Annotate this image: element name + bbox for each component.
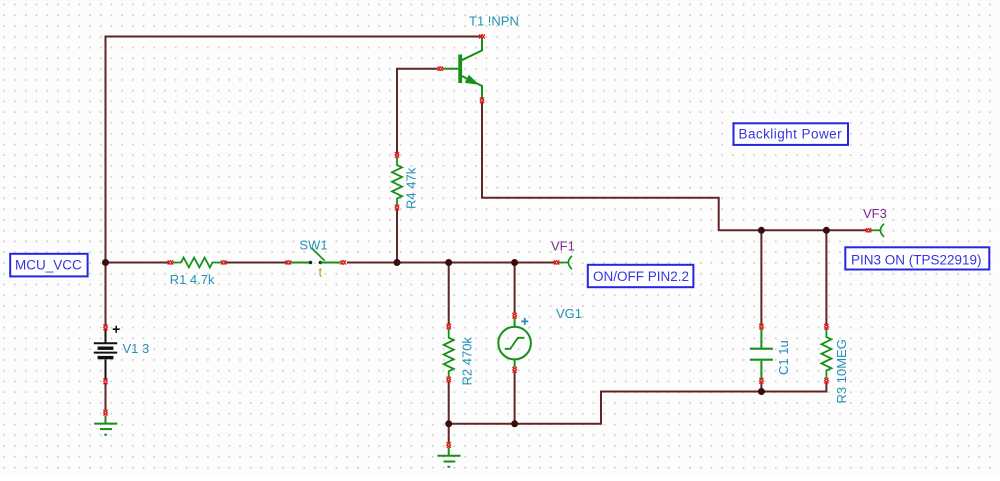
junction C1 bottom [758,388,765,395]
net label MCU_VCC [10,254,87,277]
wire T1 base to R4 top [397,69,438,153]
resistor R4 [392,152,402,210]
wire C1 top branch [760,230,762,324]
svg-text:VF3: VF3 [863,206,887,221]
svg-text:V1 3: V1 3 [123,341,150,356]
wire R3 top branch [825,230,827,324]
resistor R2 [444,324,454,382]
junction R2 bottom rail [445,420,452,427]
label R3 10MEG [834,339,849,403]
junction at MCU_VCC rail [102,259,109,266]
wire VG1 bottom to bottom rail [514,372,516,424]
svg-text:R2 470k: R2 470k [460,337,475,386]
label C1 1u [776,340,791,375]
label SW1 [299,238,327,253]
wire top-left L from node MCU_VCC up and across to T1 collector [106,37,483,262]
ground below V1 [94,410,117,435]
svg-text:R3 10MEG: R3 10MEG [834,339,849,403]
wire T1 emitter down and across to VF3 [482,101,866,230]
wire R2 bottom to bottom rail [448,382,450,424]
label VF1 [551,239,575,254]
wire main horizontal rail left segment to R1 [106,262,169,264]
junction VG1 bottom rail [511,420,518,427]
net label PIN3 ON (TPS22919) [845,247,989,269]
svg-text:R4 47k: R4 47k [404,167,419,209]
net label ON/OFF PIN2.2 [588,265,694,287]
svg-text:Backlight Power: Backlight Power [739,127,843,142]
wire bottom node to ground GND2 [448,424,450,443]
label R1 4.7k [170,272,215,287]
resistor R1 [168,258,227,268]
wire SW1 to VF1 with junctions [347,262,555,264]
label VF3 [863,206,887,221]
label R4 47k [404,167,419,209]
wire bottom rail with step up to C1/R3 net [449,383,827,424]
switch SW1 [286,248,346,264]
svg-text:C1 1u: C1 1u [776,340,791,375]
wire V1 minus to ground [105,384,107,411]
wire R4 bottom to rail [396,210,398,263]
junction R4 bottom on rail [394,259,401,266]
ground below bottom rail GND2 [437,442,460,467]
svg-text:VF1: VF1 [551,239,575,254]
svg-text:MCU_VCC: MCU_VCC [15,258,82,273]
battery V1 [94,325,120,384]
resistor R3 [821,324,831,383]
svg-text:SW1: SW1 [299,238,327,253]
junction R2 top on rail [445,259,452,266]
wire rail down to R2 top [448,263,450,325]
wire C1 bottom branch [760,383,762,392]
wire rail down to VG1 top [514,263,516,314]
svg-text:T1 !NPN: T1 !NPN [469,14,519,29]
svg-text:ON/OFF PIN2.2: ON/OFF PIN2.2 [593,269,689,284]
label VG1 [556,306,582,321]
label t [319,265,323,280]
svg-text:VG1: VG1 [556,306,582,321]
wire R1 to SW1 [226,262,287,264]
junction R3 top [823,227,830,234]
net label Backlight Power [734,123,849,145]
voltage generator VG1 [498,313,531,372]
voltage probe VF3 [866,224,884,237]
svg-text:R1 4.7k: R1 4.7k [170,272,215,287]
label R2 470k [460,337,475,386]
svg-text:t: t [319,265,323,280]
label T1 !NPN [469,14,519,29]
junction C1 top [758,227,765,234]
label V1 3 [123,341,150,356]
voltage probe VF1 [554,256,572,269]
junction VG1 top on rail [511,259,518,266]
svg-text:PIN3 ON (TPS22919): PIN3 ON (TPS22919) [851,252,982,267]
wire rail down to V1 plus [105,263,107,326]
capacitor C1 [750,324,773,383]
transistor T1 [438,34,485,103]
